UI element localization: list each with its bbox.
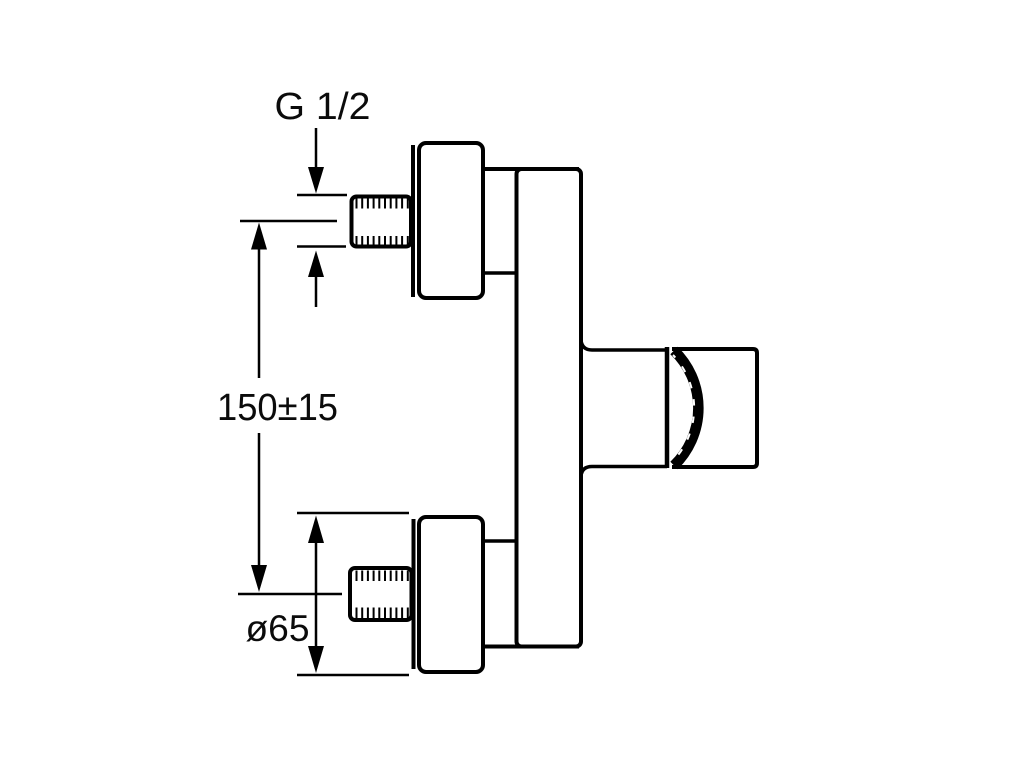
top connection neck between escutcheon and body (483, 167, 579, 171)
G1/2 upper arrow shaft (315, 128, 318, 170)
dimension 150±15 line lower part (258, 433, 261, 567)
top escutcheon rim line (411, 145, 415, 297)
bottom escutcheon rim line (412, 519, 416, 669)
svg-text:G 1/2: G 1/2 (275, 86, 371, 128)
bottom connection neck between escutcheon and body (483, 539, 517, 543)
bottom centerline (238, 593, 342, 596)
top thread hatching lower row (357, 236, 408, 245)
G1/2 lower extension line (thread bottom) (297, 245, 346, 248)
bottom thread hatching upper row (357, 571, 408, 582)
150±15 top arrowhead (up) (251, 223, 267, 250)
dimension 150±15 line upper part (258, 247, 261, 378)
G1/2 upper extension line (thread top) (297, 194, 347, 197)
top centerline (240, 220, 337, 223)
dimension ø65 lower extension line (297, 674, 409, 677)
handle knob (rounded rect) (672, 349, 757, 467)
handle collar top line with fillet at body (581, 340, 667, 350)
bottom threaded nipple G1/2 (rounded rect) (350, 568, 412, 620)
handle knob curved face dashed highlight (673, 355, 694, 461)
dimension ø65 line (315, 540, 318, 650)
G1/2 lower arrowhead (up) (308, 251, 324, 278)
top escutcheon flange (rounded rect) (419, 143, 483, 298)
G1/2 upper arrowhead (down) (308, 167, 324, 194)
150±15 bottom arrowhead (down) (251, 565, 267, 592)
handle collar end line (665, 347, 670, 468)
G1/2 lower arrow shaft (315, 275, 318, 307)
svg-text:150±15: 150±15 (217, 387, 338, 429)
ø65 bottom arrowhead (down) (308, 646, 324, 673)
handle collar bottom line with fillet at body (581, 467, 667, 477)
bottom escutcheon flange (rounded rect) (419, 517, 483, 672)
bottom thread hatching lower row (357, 608, 408, 619)
top thread hatching upper row (357, 199, 408, 209)
handle knob curved face (thick arc) (674, 351, 698, 466)
ø65 top arrowhead (up) (308, 516, 324, 544)
svg-text:ø65: ø65 (246, 608, 310, 649)
main mixer body (tall rectangle, side view) (517, 169, 582, 647)
top threaded nipple G1/2 (rounded rect) (352, 197, 412, 247)
dimension ø65 upper extension line (297, 512, 409, 515)
